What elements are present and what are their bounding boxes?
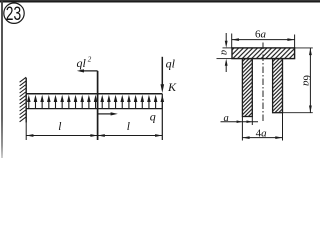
beam bottom line (load base) xyxy=(26,108,162,110)
svg-text:q: q xyxy=(150,110,156,124)
svg-text:a: a xyxy=(219,50,230,55)
dimension line l + l under beam xyxy=(26,123,162,140)
svg-text:4a: 4a xyxy=(256,127,268,139)
svg-text:2: 2 xyxy=(88,56,92,64)
wall fixed support hatching xyxy=(20,77,27,122)
svg-text:K: K xyxy=(167,80,177,94)
svg-text:l: l xyxy=(127,121,130,133)
svg-text:l: l xyxy=(58,121,61,133)
right leg (hatched) xyxy=(273,59,283,113)
6a height dimension (right) xyxy=(283,48,313,113)
problem number circle 23 xyxy=(4,3,24,25)
moment top arrow (points left) xyxy=(77,69,98,72)
svg-text:6a: 6a xyxy=(255,29,267,41)
moment ql^2 couple vertical line xyxy=(97,71,99,140)
frame left border xyxy=(1,0,3,158)
6a width dimension (top) xyxy=(232,34,295,48)
a flange thickness dimension (left) xyxy=(217,33,233,72)
frame top border xyxy=(0,0,320,2)
svg-text:23: 23 xyxy=(6,4,21,25)
beam top line xyxy=(26,93,162,95)
svg-text:ql: ql xyxy=(166,56,176,70)
beam right end line xyxy=(161,94,163,140)
svg-text:a: a xyxy=(224,113,229,124)
moment bottom arrow (points right) xyxy=(98,112,118,115)
flange (hatched) xyxy=(232,48,295,59)
distributed load q arrows xyxy=(27,95,164,109)
4a dimension (bottom) xyxy=(242,113,282,141)
a leg width dimension (bottom left) xyxy=(221,117,259,141)
force ql arrow at K xyxy=(161,57,165,93)
section centerline (dash-dot) xyxy=(262,43,264,123)
svg-text:6a: 6a xyxy=(301,75,313,87)
wall line xyxy=(25,78,27,123)
left leg (hatched) xyxy=(242,59,252,117)
svg-text:ql: ql xyxy=(77,56,87,70)
left extension (wall line continues) xyxy=(25,123,27,140)
